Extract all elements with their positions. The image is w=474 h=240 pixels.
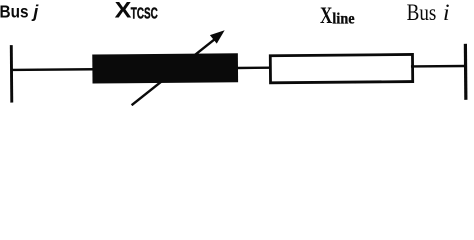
svg-text:X: X	[115, 0, 132, 23]
svg-text:line: line	[332, 9, 354, 28]
svg-text:Bus: Bus	[407, 0, 437, 26]
svg-text:TCSC: TCSC	[131, 6, 158, 23]
svg-text:X: X	[320, 3, 332, 29]
svg-text:i: i	[443, 0, 450, 26]
svg-text:j: j	[31, 2, 39, 22]
svg-text:Bus: Bus	[0, 2, 29, 22]
